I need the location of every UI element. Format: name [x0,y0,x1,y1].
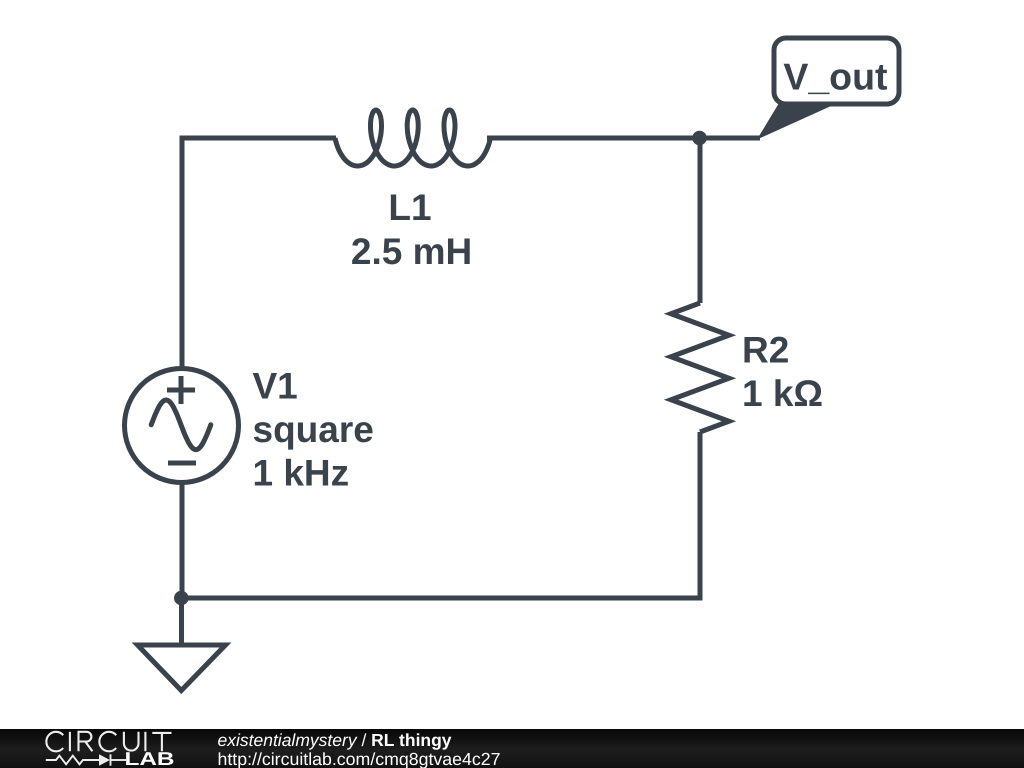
wire source bottom stem [180,483,185,598]
wire ground stem [179,598,184,647]
V_out flag box [774,38,899,104]
svg-text:2.5 mH: 2.5 mH [351,231,472,272]
wire left vertical top [180,136,185,370]
svg-text:LAB: LAB [125,748,175,768]
resistor R2 [671,303,729,432]
wire top horizontal left [180,136,337,141]
svg-text:square: square [253,409,374,450]
node dot bottom left [174,591,189,606]
V1 minus sign [168,461,196,466]
svg-text:V1: V1 [253,366,298,407]
wire right vertical top [698,138,703,303]
wire top horizontal right [487,136,700,141]
V1 plus sign [167,376,195,404]
svg-text:1 kΩ: 1 kΩ [742,373,823,414]
V_out tail [757,103,830,140]
wire bottom horizontal [181,596,702,601]
svg-text:V_out: V_out [783,56,888,98]
footer bar [0,729,1024,768]
svg-text:existentialmystery / RL thingy: existentialmystery / RL thingy [218,730,452,750]
svg-text:L1: L1 [388,187,431,228]
ground symbol [138,645,226,691]
inductor L1 [335,110,490,166]
CircuitLab logo CIRCUIT (stroked letters) [46,732,171,752]
wire node to V_out tail [700,136,761,141]
svg-text:1 kHz: 1 kHz [253,453,350,494]
svg-text:R2: R2 [742,330,789,371]
V1 sine wave [151,400,211,450]
svg-text:http://circuitlab.com/cmq8gtva: http://circuitlab.com/cmq8gtvae4c27 [218,749,501,768]
wire right vertical bottom [698,432,703,601]
logo resistor-diode glyph [46,754,126,765]
voltage source V1 circle [125,369,239,483]
node dot top right [692,131,707,146]
